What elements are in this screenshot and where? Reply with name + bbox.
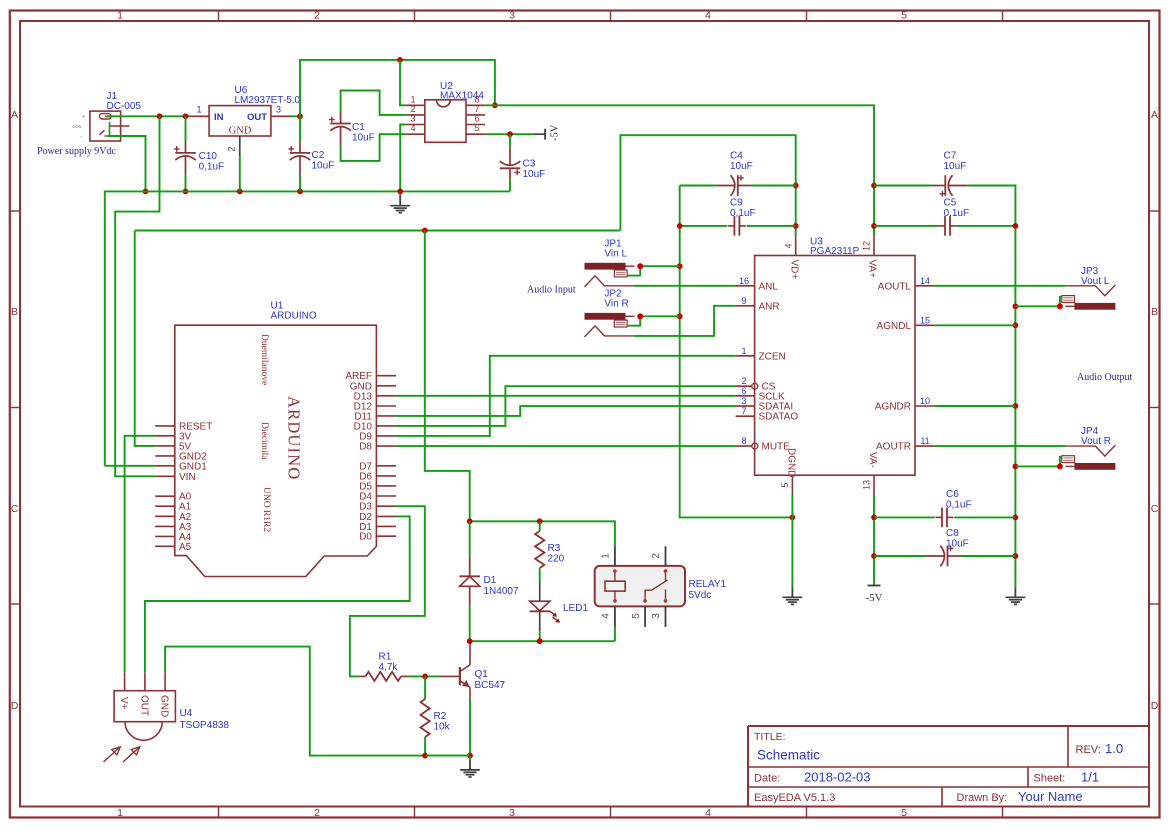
- pin stub U3 MUTE: [736, 445, 752, 447]
- svg-text:4: 4: [410, 123, 415, 133]
- connector JP4 audio jack: [1062, 445, 1116, 470]
- svg-text:GND: GND: [229, 126, 252, 137]
- svg-text:2018-02-03: 2018-02-03: [804, 770, 871, 785]
- pin stub U6 pin 1: [189, 115, 210, 117]
- svg-text:1.0: 1.0: [1105, 741, 1123, 756]
- svg-text:Vin R: Vin R: [604, 299, 628, 310]
- pin stub U3 AOUTR: [915, 445, 934, 447]
- junction AGND at C8: [1013, 553, 1019, 559]
- svg-text:-5V: -5V: [550, 124, 561, 141]
- svg-text:7: 7: [474, 104, 479, 114]
- svg-text:0,1uF: 0,1uF: [199, 162, 225, 173]
- svg-text:3: 3: [509, 807, 515, 819]
- wire TSOP GND to transistor ground rail: [165, 647, 470, 756]
- svg-text:VIN: VIN: [179, 472, 196, 483]
- junction AGND at AGNDR: [1013, 403, 1019, 409]
- relay pin 1: [614, 546, 616, 566]
- diode D1 1N4007: [459, 521, 480, 641]
- frame column numbers bottom: [117, 807, 907, 819]
- svg-text:5Vdc: 5Vdc: [689, 590, 712, 601]
- pin stub U1 D5: [376, 485, 396, 487]
- svg-text:C2: C2: [312, 150, 325, 161]
- svg-text:C5: C5: [944, 198, 957, 209]
- frame row letters right: [1151, 109, 1159, 712]
- microcontroller board U1 ARDUINO: [175, 325, 377, 576]
- wire bottom rail D1 LED relay pin4: [470, 640, 615, 642]
- relay pin 2: [665, 546, 667, 566]
- pin stub U3 VA+ pin 12: [873, 236, 875, 255]
- junction JP4 sleeve: [1057, 464, 1063, 470]
- pin stub U1 5V: [155, 445, 175, 447]
- svg-text:AGNDL: AGNDL: [877, 321, 912, 332]
- wire Q1 emitter to ground rail: [469, 700, 471, 756]
- wire VA- pin down: [873, 495, 875, 586]
- pin stub U1 A1: [155, 505, 175, 507]
- svg-text:15: 15: [920, 315, 930, 325]
- pin stub U3 SCLK: [736, 395, 755, 397]
- svg-text:Audio Output: Audio Output: [1077, 372, 1133, 383]
- svg-text:C4: C4: [730, 151, 743, 162]
- resistor R1: [360, 672, 441, 681]
- junction VA+ at C7: [871, 183, 877, 189]
- junction VA- at C6: [871, 515, 877, 521]
- wire U6 GND pin to ground bus: [239, 156, 241, 191]
- svg-text:1: 1: [600, 553, 611, 559]
- svg-text:Vout L: Vout L: [1081, 276, 1110, 287]
- svg-text:8: 8: [741, 436, 746, 446]
- wire ANL from JP1 tip: [634, 285, 736, 287]
- pin stub U1 D1: [376, 525, 396, 527]
- svg-text:12: 12: [862, 241, 872, 251]
- wire JP3 sleeve to AGND bus: [1015, 305, 1060, 307]
- svg-text:C6: C6: [946, 489, 959, 500]
- junction AGND at JP3 sleeve: [1013, 303, 1019, 309]
- pin stub U2 pin 5: [466, 133, 485, 135]
- svg-text:A: A: [1151, 109, 1158, 121]
- svg-text:Diecimila: Diecimila: [259, 422, 269, 460]
- svg-text:ANR: ANR: [759, 301, 780, 312]
- wire U6 OUT to +5V node: [290, 115, 300, 117]
- junction AGND at JP4 sleeve: [1013, 464, 1019, 470]
- capacitor C1: [329, 112, 351, 145]
- svg-text:10uF: 10uF: [946, 539, 969, 550]
- pin stub U1 A4: [155, 535, 175, 537]
- svg-text:Schematic: Schematic: [757, 748, 820, 763]
- pin stub U3 VA- pin 13: [873, 475, 875, 494]
- regulator U6 LM2937ET-5.0: [209, 106, 271, 136]
- svg-text:Q1: Q1: [475, 669, 489, 680]
- svg-text:Duemilanove: Duemilanove: [259, 334, 269, 385]
- junction +9V at C10: [183, 113, 189, 119]
- junction JP1 sleeve: [637, 263, 643, 269]
- svg-text:Vin L: Vin L: [604, 249, 627, 260]
- junction rail at D1: [467, 518, 473, 524]
- svg-text:C3: C3: [523, 159, 536, 170]
- wire +5V up-over to PGA VD+: [620, 135, 795, 236]
- svg-text:C1: C1: [352, 122, 365, 133]
- capacitor C10: [174, 116, 196, 191]
- pin stub U1 A5: [155, 545, 175, 547]
- junction VD+ at C4: [793, 183, 799, 189]
- svg-text:1: 1: [196, 105, 201, 115]
- pin stub U3 DGND pin 5: [791, 475, 793, 494]
- svg-text:R2: R2: [434, 711, 447, 722]
- relay pin 4: [614, 606, 616, 627]
- svg-text:ARDUINO: ARDUINO: [285, 396, 304, 480]
- svg-text:4: 4: [705, 10, 711, 22]
- svg-text:IN: IN: [214, 112, 224, 123]
- junction DGND at JP1 sleeve: [677, 263, 683, 269]
- pin stub U1 D8: [376, 445, 396, 447]
- svg-text:+: +: [82, 115, 85, 121]
- pin stub U2 pin 1: [406, 104, 425, 106]
- junction VD+ at C9: [793, 223, 799, 229]
- pin stub U2 pin 2: [406, 114, 425, 116]
- svg-text:5: 5: [901, 807, 907, 819]
- power flag -5V at U2 pin5: [535, 124, 561, 141]
- svg-text:TITLE:: TITLE:: [754, 731, 786, 743]
- svg-text:A5: A5: [179, 542, 192, 553]
- wire Arduino 3V to TSOP V+: [125, 436, 156, 673]
- ground symbol analog ground: [1006, 583, 1026, 604]
- wire digital ground vertical: [680, 186, 793, 518]
- svg-text:6: 6: [474, 114, 479, 124]
- pin stub U1 A0: [155, 495, 175, 497]
- wire JP2 sleeve to ground: [627, 316, 640, 325]
- pin stub U1 A2: [155, 515, 175, 517]
- junction AGND at C5: [1013, 223, 1019, 229]
- svg-text:2: 2: [651, 553, 662, 559]
- svg-text:Your Name: Your Name: [1018, 789, 1083, 804]
- svg-text:1/1: 1/1: [1081, 770, 1099, 785]
- junction DGND at JP2 sleeve: [677, 313, 683, 319]
- volume control IC U3 PGA2311P: [755, 256, 915, 476]
- pin stub U1 D13: [376, 395, 396, 397]
- pin stub U1 D9: [376, 435, 396, 437]
- ground symbol digital ground: [783, 583, 803, 604]
- connector JP2 audio jack: [585, 313, 635, 337]
- capacitor C9: [680, 216, 796, 236]
- pin stub U1 RESET: [155, 425, 175, 427]
- wire C1 to U2 pin4: [341, 134, 406, 161]
- pin stub U1 A3: [155, 525, 175, 527]
- svg-text:-: -: [80, 134, 82, 140]
- junction +9V at VIN branch: [157, 113, 163, 119]
- wire JP1 sleeve to ground: [627, 266, 640, 275]
- frame column numbers top: [117, 10, 907, 22]
- wire U2 pin8 +5V over to PGA VA+: [485, 105, 874, 236]
- charge pump U2 MAX1044: [425, 100, 466, 143]
- frame row letters left: [11, 109, 19, 712]
- RELAY1 contact dots: [613, 569, 667, 603]
- pin stub U3 AGNDL: [915, 324, 934, 326]
- power flag -5V at VA-: [865, 586, 882, 605]
- wire +5V branch to U2 pin 1: [400, 60, 406, 105]
- wire JP1 sleeve to DGND bus: [640, 265, 680, 267]
- capacitor C4: [680, 175, 796, 196]
- wire +5V rail D1 R3 relay top: [470, 521, 615, 546]
- svg-text:4: 4: [600, 613, 611, 619]
- pin stub U1 GND: [376, 385, 396, 387]
- svg-text:D: D: [11, 700, 19, 712]
- junction DGND at C9: [677, 223, 683, 229]
- pin stub U6 pin 3: [271, 115, 290, 117]
- svg-text:3: 3: [651, 613, 662, 619]
- junction ground bus at C10: [183, 189, 189, 195]
- svg-text:A: A: [11, 109, 18, 121]
- junction JP2 sleeve at bus: [637, 313, 643, 319]
- LED LED1: [530, 582, 561, 642]
- junction DGND at pin5 wire: [790, 515, 796, 521]
- svg-text:10uF: 10uF: [944, 161, 967, 172]
- capacitor C8: [874, 546, 1015, 567]
- svg-text:C7: C7: [944, 151, 957, 162]
- U6 pin 2 stub: [239, 136, 241, 156]
- capacitor C6: [874, 508, 1015, 528]
- junction ground bus at C2: [297, 189, 303, 195]
- svg-text:5: 5: [901, 10, 907, 22]
- svg-text:3: 3: [410, 114, 415, 124]
- svg-text:5: 5: [474, 123, 479, 133]
- wire U2 pin5 -5V: [485, 133, 534, 135]
- svg-text:1: 1: [117, 807, 123, 819]
- svg-text:9: 9: [741, 296, 746, 306]
- svg-text:-5V: -5V: [865, 592, 882, 604]
- resistor R2: [421, 676, 430, 755]
- wire +5V rail down to Arduino 5V pin: [135, 231, 156, 446]
- svg-text:AOUTR: AOUTR: [876, 442, 911, 453]
- svg-text:10uF: 10uF: [352, 133, 375, 144]
- pin stub U2 pin 7: [466, 114, 485, 116]
- svg-text:3: 3: [509, 10, 515, 22]
- svg-text:5: 5: [780, 482, 790, 487]
- svg-text:OUT: OUT: [138, 695, 149, 716]
- junction rail at R3: [537, 518, 543, 524]
- svg-text:EasyEDA V5.1.3: EasyEDA V5.1.3: [754, 792, 835, 804]
- junction JP4 sleeve at bus: [1057, 464, 1063, 470]
- svg-text:3: 3: [741, 396, 746, 406]
- junction -5V at C3: [507, 131, 513, 137]
- junction JP3 sleeve: [1057, 303, 1063, 309]
- svg-text:Power supply 9Vdc: Power supply 9Vdc: [37, 146, 116, 157]
- svg-text:ARDUINO: ARDUINO: [271, 311, 317, 322]
- pin stub U1 D11: [376, 415, 396, 417]
- junction ground rail at R2: [422, 753, 428, 759]
- wire +5V branch down to D1/relay rail: [425, 231, 470, 522]
- wire JP2 sleeve to DGND bus: [640, 315, 680, 317]
- svg-text:C10: C10: [199, 151, 218, 162]
- pin stub U1 D12: [376, 405, 396, 407]
- pin stub U1 GND1: [155, 465, 175, 467]
- svg-text:0,1uF: 0,1uF: [944, 208, 970, 219]
- svg-text:5: 5: [631, 613, 642, 619]
- relay pin 5: [644, 606, 646, 627]
- wire +9V down to Arduino VIN: [115, 116, 159, 476]
- junction JP1 sleeve at bus: [637, 263, 643, 269]
- svg-text:GND: GND: [159, 695, 170, 717]
- capacitor C2: [288, 116, 310, 191]
- pin stub U1 AREF: [376, 375, 396, 377]
- svg-text:10: 10: [920, 396, 930, 406]
- wire ground rail segment: [425, 755, 470, 757]
- wire D13 to SCLK: [396, 395, 736, 397]
- svg-text:C: C: [1151, 503, 1159, 515]
- ground symbol near U2: [390, 191, 410, 212]
- wire JP4 sleeve to AGND bus: [1015, 465, 1060, 467]
- wire +9V from J1 tip to U6 IN: [108, 115, 189, 117]
- transistor Q1 BC547: [441, 644, 471, 700]
- wire ground bus to Arduino GND1: [105, 465, 155, 467]
- svg-text:2: 2: [227, 146, 237, 151]
- junction ground rail at Q1 emitter: [467, 753, 473, 759]
- svg-text:ZCEN: ZCEN: [759, 351, 786, 362]
- wire AOUTR to JP4 tip: [934, 445, 1065, 447]
- svg-text:16: 16: [739, 276, 749, 286]
- svg-text:2: 2: [314, 10, 320, 22]
- svg-text:10uF: 10uF: [312, 161, 335, 172]
- pin stub U2 pin 8: [466, 104, 485, 106]
- wire D9 to ZCEN: [396, 356, 736, 436]
- J1 polarity marks: [73, 115, 85, 140]
- svg-text:LED1: LED1: [563, 603, 588, 614]
- svg-text:2: 2: [410, 104, 415, 114]
- wire U2 pin2 to C1: [341, 91, 406, 115]
- wire Arduino D3 to R1: [350, 506, 425, 676]
- svg-text:V+: V+: [118, 697, 129, 710]
- pin stub U1 D3: [376, 505, 396, 507]
- wire D10 to CS: [396, 386, 736, 426]
- wire +5V loop to U2 V+: [300, 60, 495, 116]
- pin stub U1 D4: [376, 495, 396, 497]
- svg-text:TSOP4838: TSOP4838: [180, 720, 230, 731]
- junction JP3 sleeve at bus: [1057, 303, 1063, 309]
- svg-text:Vout R: Vout R: [1081, 436, 1111, 447]
- svg-text:R1: R1: [379, 652, 392, 663]
- svg-text:10uF: 10uF: [730, 161, 753, 172]
- junction +5V at C2: [297, 113, 303, 119]
- svg-text:4: 4: [784, 243, 794, 248]
- title block: [748, 726, 1149, 807]
- svg-text:Drawn By:: Drawn By:: [957, 792, 1008, 804]
- svg-text:D: D: [1151, 700, 1159, 712]
- junction +5V top at U2 pin1 branch: [397, 57, 403, 63]
- svg-text:1: 1: [410, 94, 415, 104]
- junction AGND at C6: [1013, 515, 1019, 521]
- wire J1 sleeve to ground bus: [108, 136, 146, 191]
- pin stub U3 AGNDR: [915, 405, 934, 407]
- svg-text:220: 220: [548, 554, 565, 565]
- svg-text:3: 3: [276, 105, 281, 115]
- svg-text:0,1uF: 0,1uF: [730, 208, 756, 219]
- wire JP4 sleeve to ground: [1060, 457, 1062, 466]
- svg-text:14: 14: [920, 276, 930, 286]
- svg-text:2: 2: [314, 807, 320, 819]
- svg-text:R3: R3: [548, 543, 561, 554]
- svg-text:11: 11: [920, 436, 929, 446]
- svg-text:1N4007: 1N4007: [484, 586, 519, 597]
- svg-text:D0: D0: [359, 532, 372, 543]
- svg-text:Sheet:: Sheet:: [1034, 773, 1066, 785]
- svg-text:1: 1: [117, 10, 123, 22]
- connector J1 DC-005 barrel jack: [90, 111, 130, 141]
- pin stub U2 pin 4: [406, 133, 425, 135]
- junction ground bus at U2 pin3: [397, 189, 403, 195]
- wire DGND pin to ground: [791, 495, 793, 584]
- svg-text:Date:: Date:: [754, 773, 780, 785]
- svg-text:VA+: VA+: [867, 260, 878, 279]
- pin stub U2 pin 6: [466, 124, 485, 126]
- pin stub U1 VIN: [155, 475, 175, 477]
- svg-text:VD+: VD+: [789, 260, 800, 280]
- wire ground bus horizontal: [105, 191, 510, 465]
- pin stub U1 D0: [376, 535, 396, 537]
- junction AGND at AGNDL: [1013, 322, 1019, 328]
- svg-text:4,7k: 4,7k: [379, 662, 399, 673]
- svg-text:C: C: [11, 503, 19, 515]
- svg-text:PGA2311P: PGA2311P: [810, 246, 860, 257]
- capacitor C3: [500, 134, 521, 191]
- svg-text:AGNDR: AGNDR: [875, 402, 911, 413]
- pin stub U3 ANL: [736, 285, 755, 287]
- svg-text:4: 4: [705, 807, 711, 819]
- wire AGNDL to AGND bus: [934, 324, 1015, 326]
- svg-text:13: 13: [862, 480, 872, 490]
- junction bottom rail at LED1: [537, 638, 543, 644]
- wire U2 pin3 to ground bus: [400, 125, 406, 192]
- svg-text:LM2937ET-5.0: LM2937ET-5.0: [235, 95, 301, 106]
- svg-text:Audio Input: Audio Input: [527, 285, 576, 296]
- svg-text:OUT: OUT: [247, 112, 267, 123]
- pin stub U1 D7: [376, 465, 396, 467]
- pin stub U3 VD+ pin 4: [795, 236, 797, 255]
- svg-text:DC-005: DC-005: [107, 101, 142, 112]
- connector JP1 audio jack: [585, 263, 635, 287]
- pin stub U1 D6: [376, 475, 396, 477]
- wire analog ground bus right: [1014, 226, 1016, 583]
- junction VA+ at C5: [871, 223, 877, 229]
- wire TSOP OUT to Arduino D2: [145, 516, 410, 672]
- capacitor C7: [874, 175, 1015, 226]
- svg-text:C8: C8: [946, 528, 959, 539]
- svg-text:C9: C9: [730, 198, 743, 209]
- svg-text:RELAY1: RELAY1: [689, 579, 727, 590]
- pin stub U1 GND2: [155, 455, 175, 457]
- svg-text:B: B: [1151, 306, 1158, 318]
- svg-text:D1: D1: [484, 575, 497, 586]
- ground symbol at Q1 emitter: [460, 756, 480, 777]
- svg-text:ANL: ANL: [759, 281, 779, 292]
- junction VA- at C8: [871, 553, 877, 559]
- wire ANR from JP2 tip: [634, 306, 736, 336]
- pin stub U3 SDATAO: [736, 415, 755, 417]
- pin stub U3 ANR: [736, 305, 755, 307]
- junction ground bus at J1 sleeve: [143, 189, 149, 195]
- svg-text:6: 6: [741, 386, 746, 396]
- svg-text:1: 1: [741, 346, 746, 356]
- svg-text:B: B: [11, 306, 18, 318]
- svg-text:CON: CON: [73, 124, 82, 129]
- U4 IR arrows: [104, 747, 140, 762]
- svg-text:GND1: GND1: [179, 461, 207, 472]
- svg-text:2: 2: [741, 376, 746, 386]
- svg-text:8: 8: [474, 94, 479, 104]
- junction +5V rail at relay branch: [422, 228, 428, 234]
- pin stub U3 CS: [736, 385, 752, 387]
- junction base-R2 node: [422, 674, 428, 680]
- pin stub U3 AOUTL: [915, 285, 934, 287]
- svg-text:DGND: DGND: [786, 448, 797, 477]
- svg-text:REV:: REV:: [1076, 744, 1101, 756]
